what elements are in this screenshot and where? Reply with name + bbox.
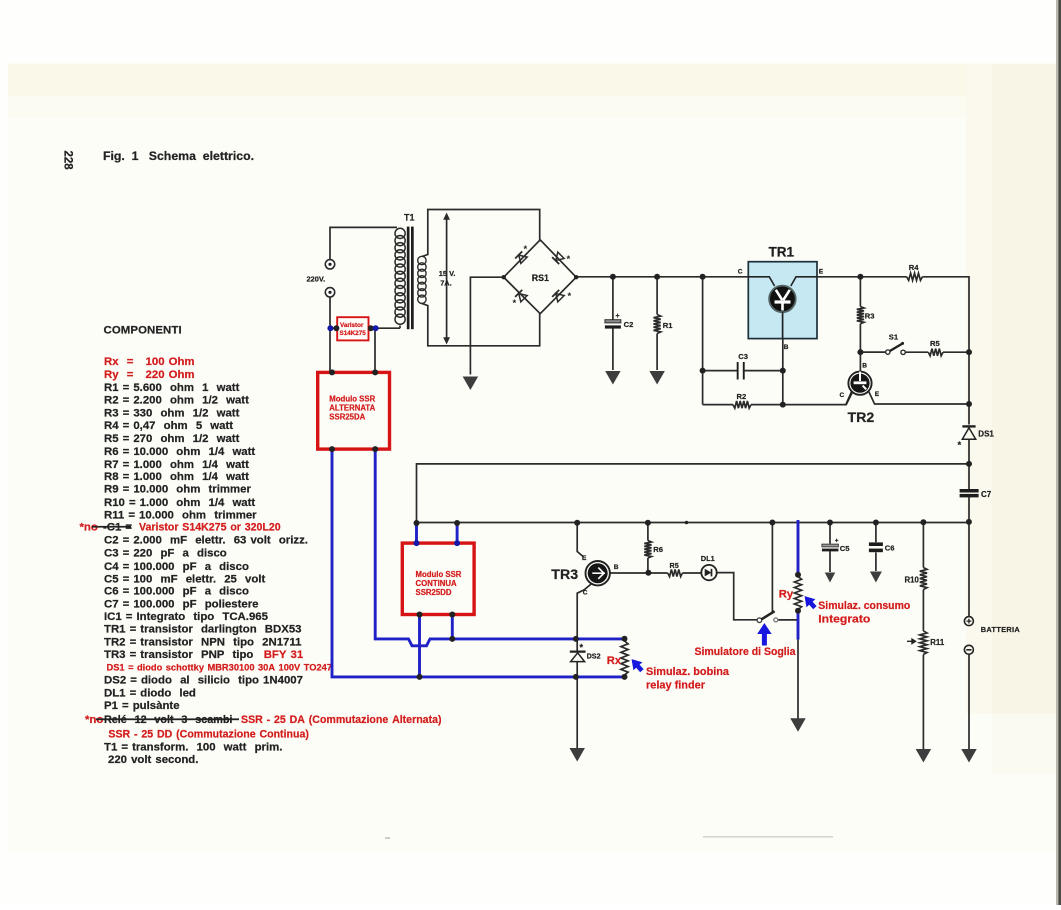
svg-text:*: * xyxy=(958,440,962,451)
svg-text:P1 = pulsànte: P1 = pulsànte xyxy=(104,700,180,712)
svg-text:TR2 = transistor NPN tipo 2: TR2 = transistor NPN tipo 2N1711 xyxy=(104,636,302,648)
svg-text:*: * xyxy=(568,291,572,302)
svg-text:DS2: DS2 xyxy=(587,651,601,660)
svg-text:C: C xyxy=(583,589,588,596)
svg-text:DL1 = diodo led: DL1 = diodo led xyxy=(104,687,196,699)
svg-text:Rx = 100 Ohm: Rx = 100 Ohm xyxy=(104,356,195,368)
svg-text:TR1: TR1 xyxy=(769,244,795,259)
svg-text:Fig. 1 Schema elettrico.: Fig. 1 Schema elettrico. xyxy=(103,149,254,163)
svg-text:BATTERIA: BATTERIA xyxy=(981,625,1021,634)
svg-text:R9 = 10.000 ohm trimmer: R9 = 10.000 ohm trimmer xyxy=(104,484,251,496)
svg-text:C2 = 2.000 mF elettr. 63 vo: C2 = 2.000 mF elettr. 63 volt orizz. xyxy=(104,535,308,547)
svg-text:T1 = transform. 100 watt pr: T1 = transform. 100 watt prim. xyxy=(104,741,282,753)
svg-text:R2: R2 xyxy=(737,392,747,401)
svg-text:SSR25DD: SSR25DD xyxy=(416,588,452,597)
svg-text:Simulaz. bobina: Simulaz. bobina xyxy=(646,666,729,678)
svg-text:BFY 31: BFY 31 xyxy=(264,649,304,661)
svg-text:C: C xyxy=(738,269,743,276)
svg-text:R11 = 10.000 ohm trimmer: R11 = 10.000 ohm trimmer xyxy=(104,509,257,521)
svg-text:7A.: 7A. xyxy=(440,279,452,288)
svg-text:+: + xyxy=(616,313,620,320)
svg-text:relay finder: relay finder xyxy=(646,680,705,692)
svg-text:R5: R5 xyxy=(670,561,679,570)
svg-text:228: 228 xyxy=(62,151,74,171)
svg-text:DL1: DL1 xyxy=(701,554,715,563)
svg-text:Simulaz. consumo: Simulaz. consumo xyxy=(818,600,911,612)
svg-text:R1 = 5.600 ohm 1 watt: R1 = 5.600 ohm 1 watt xyxy=(104,382,240,394)
svg-text:C3 = 220 pF a disco: C3 = 220 pF a disco xyxy=(104,548,227,560)
svg-text:RS1: RS1 xyxy=(532,273,549,283)
svg-text:TR1 = transistor darlington: TR1 = transistor darlington BDX53 xyxy=(104,624,302,636)
svg-text:S14K275: S14K275 xyxy=(340,330,367,337)
svg-text:T1: T1 xyxy=(404,213,415,223)
svg-text:E: E xyxy=(819,269,824,276)
svg-text:DS1 = diodo schottky MBR30100: DS1 = diodo schottky MBR30100 30A 100V T… xyxy=(107,662,332,672)
svg-text:*: * xyxy=(567,254,571,265)
svg-text:SSR25DA: SSR25DA xyxy=(329,412,365,421)
svg-text:+: + xyxy=(835,537,839,544)
svg-text:SSR - 25 DA (Commutazione Alte: SSR - 25 DA (Commutazione Alternata) xyxy=(241,714,442,726)
svg-text:R11: R11 xyxy=(930,638,945,647)
svg-text:Simulatore di Soglia: Simulatore di Soglia xyxy=(695,646,796,658)
svg-text:SSR - 25 DD (Commutazione Cont: SSR - 25 DD (Commutazione Continua) xyxy=(108,729,309,741)
svg-text:C7 = 100.000 pF poliestere: C7 = 100.000 pF poliestere xyxy=(104,598,259,610)
svg-text:C4 = 100.000 pF a disco: C4 = 100.000 pF a disco xyxy=(104,561,249,573)
svg-text:*no: *no xyxy=(80,522,98,534)
svg-text:220V.: 220V. xyxy=(307,274,326,283)
svg-text:C3: C3 xyxy=(738,352,748,361)
svg-text:R6 = 10.000 ohm 1/4 watt: R6 = 10.000 ohm 1/4 watt xyxy=(104,446,255,458)
svg-text:Ry = 220 Ohm: Ry = 220 Ohm xyxy=(104,369,195,381)
svg-text:220 volt second.: 220 volt second. xyxy=(108,754,198,766)
svg-text:R10 = 1.000 ohm 1/4 watt: R10 = 1.000 ohm 1/4 watt xyxy=(104,497,255,509)
svg-text:DS2 = diodo al silicio tipo: DS2 = diodo al silicio tipo 1N4007 xyxy=(104,675,303,687)
svg-text:S1: S1 xyxy=(889,333,899,342)
svg-text:C2: C2 xyxy=(624,320,634,329)
svg-text:DS1: DS1 xyxy=(978,429,994,438)
svg-text:R5 = 270 ohm 1/2 watt: R5 = 270 ohm 1/2 watt xyxy=(104,433,240,445)
svg-text:Varistor: Varistor xyxy=(340,322,364,329)
svg-text:R7 = 1.000 ohm 1/4 watt: R7 = 1.000 ohm 1/4 watt xyxy=(104,459,249,471)
svg-text:*: * xyxy=(513,298,517,309)
svg-text:Modulo SSR: Modulo SSR xyxy=(416,570,462,579)
svg-text:ALTERNATA: ALTERNATA xyxy=(329,403,375,412)
svg-text:Ry: Ry xyxy=(779,589,794,601)
svg-text:R6: R6 xyxy=(653,545,663,554)
svg-text:R10: R10 xyxy=(905,575,920,584)
svg-text:15 V.: 15 V. xyxy=(439,269,456,278)
svg-text:B: B xyxy=(862,363,867,370)
svg-text:Varistor S14K275 or 320L20: Varistor S14K275 or 320L20 xyxy=(139,522,281,534)
svg-text:C5 = 100 mF elettr. 25 vol: C5 = 100 mF elettr. 25 volt xyxy=(104,574,265,586)
svg-text:TR2: TR2 xyxy=(848,410,875,426)
svg-text:R5: R5 xyxy=(930,339,940,348)
svg-text:C6 = 100.000 pF a disco: C6 = 100.000 pF a disco xyxy=(104,586,249,598)
svg-text:C: C xyxy=(840,392,845,399)
svg-text:E: E xyxy=(875,391,880,398)
svg-text:R4 = 0,47 ohm 5 watt: R4 = 0,47 ohm 5 watt xyxy=(104,420,233,432)
svg-text:TR3: TR3 xyxy=(551,567,578,583)
svg-text:R2 = 2.200 ohm 1/2 watt: R2 = 2.200 ohm 1/2 watt xyxy=(104,395,249,407)
svg-text:B: B xyxy=(614,564,619,571)
svg-text:R3 = 330 ohm 1/2 watt: R3 = 330 ohm 1/2 watt xyxy=(104,408,240,420)
svg-text:COMPONENTI: COMPONENTI xyxy=(104,325,182,337)
svg-text:C6: C6 xyxy=(885,544,895,553)
svg-text:*: * xyxy=(580,643,584,653)
svg-text:E: E xyxy=(582,555,587,562)
svg-text:TR3 = transistor PNP tipo: TR3 = transistor PNP tipo xyxy=(104,649,253,661)
svg-text:R1: R1 xyxy=(663,321,673,330)
svg-text:C5: C5 xyxy=(840,544,850,553)
svg-text:Integrato: Integrato xyxy=(818,613,871,625)
svg-text:-C1 =: -C1 = xyxy=(103,522,132,534)
svg-text:Modulo SSR: Modulo SSR xyxy=(329,395,375,404)
svg-text:CONTINUA: CONTINUA xyxy=(416,579,458,588)
svg-text:Rx: Rx xyxy=(607,655,622,667)
svg-text:B: B xyxy=(784,344,789,351)
svg-text:R3: R3 xyxy=(865,312,875,321)
svg-text:*: * xyxy=(524,244,528,255)
svg-text:R8 = 1.000 ohm 1/4 watt: R8 = 1.000 ohm 1/4 watt xyxy=(104,471,249,483)
svg-text:C7: C7 xyxy=(981,490,992,499)
svg-text:IC1 = Integrato tipo TCA.965: IC1 = Integrato tipo TCA.965 xyxy=(104,611,269,623)
svg-text:R4: R4 xyxy=(909,263,919,272)
